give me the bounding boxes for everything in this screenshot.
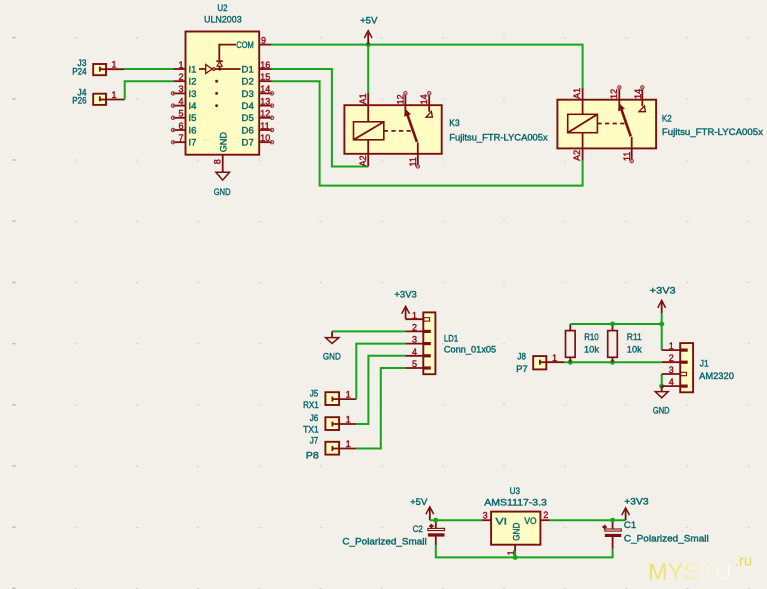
svg-text:U3: U3 xyxy=(510,486,520,497)
svg-text:5: 5 xyxy=(178,109,183,119)
svg-text:K3: K3 xyxy=(449,118,459,129)
svg-text:4: 4 xyxy=(669,377,674,387)
svg-text:Fujitsu_FTR-LYCA005x: Fujitsu_FTR-LYCA005x xyxy=(662,127,763,138)
svg-text:J8: J8 xyxy=(517,351,526,362)
svg-text:14: 14 xyxy=(419,94,429,104)
svg-text:A1: A1 xyxy=(358,93,368,104)
svg-text:U2: U2 xyxy=(217,3,227,14)
power +5V above C2 xyxy=(410,497,434,520)
svg-text:Conn_01x05: Conn_01x05 xyxy=(444,344,496,355)
svg-text:I1: I1 xyxy=(189,64,197,75)
svg-text:+5V: +5V xyxy=(410,497,428,508)
svg-text:GND: GND xyxy=(219,132,230,152)
wire J6 to LD1 pin4 xyxy=(356,356,405,424)
capacitor C2 C_Polarized_Small xyxy=(342,523,444,548)
svg-text:7: 7 xyxy=(178,133,183,143)
svg-text:11: 11 xyxy=(622,152,632,161)
svg-text:5: 5 xyxy=(412,359,417,369)
wire COM rail to K2 A1 xyxy=(272,45,583,88)
ground GND below J1 xyxy=(653,386,670,417)
wire +5V to U3 VI xyxy=(430,519,482,521)
svg-text:13: 13 xyxy=(260,96,270,106)
svg-text:GND: GND xyxy=(653,406,670,417)
wire J3 to U2 I1 xyxy=(124,68,173,70)
svg-text:R11: R11 xyxy=(627,332,642,343)
svg-text:11: 11 xyxy=(408,157,418,166)
svg-text:1: 1 xyxy=(669,341,674,351)
svg-text:C2: C2 xyxy=(413,524,423,535)
svg-text:10: 10 xyxy=(260,133,270,143)
svg-text:4: 4 xyxy=(178,96,183,106)
power +5V top xyxy=(360,16,378,45)
svg-text:Fujitsu_FTR-LYCA005x: Fujitsu_FTR-LYCA005x xyxy=(449,132,548,143)
svg-text:I5: I5 xyxy=(189,113,197,124)
wire C2 to GND rail xyxy=(436,545,613,557)
connector LD1 Conn_01x05 xyxy=(406,310,497,374)
power +3V3 above LD1 xyxy=(394,290,416,320)
svg-text:11: 11 xyxy=(260,121,269,131)
wire J8 to J1 pin2 xyxy=(564,361,661,363)
wire J5 to LD1 pin3 xyxy=(356,344,405,400)
svg-text:1: 1 xyxy=(346,390,351,400)
connector J4 P26 xyxy=(72,88,124,107)
ground GND left of LD1 xyxy=(323,331,341,362)
svg-text:P8: P8 xyxy=(306,450,319,461)
resistor R11 10k xyxy=(608,324,642,362)
svg-text:+3V3: +3V3 xyxy=(624,496,648,507)
svg-text:10k: 10k xyxy=(584,345,599,356)
svg-text:ULN2003: ULN2003 xyxy=(204,15,242,26)
wire J1 pin3 to GND xyxy=(661,374,663,386)
svg-text:D3: D3 xyxy=(242,89,254,100)
junction J8 R10 xyxy=(568,360,573,365)
svg-text:COM: COM xyxy=(236,40,254,51)
svg-text:I7: I7 xyxy=(189,138,197,149)
connector J3 P24 xyxy=(72,58,124,77)
svg-text:8: 8 xyxy=(212,159,222,164)
svg-text:GND: GND xyxy=(323,351,341,362)
power +3V3 right of C1 xyxy=(622,496,649,520)
svg-text:D6: D6 xyxy=(242,125,254,136)
svg-text:J6: J6 xyxy=(310,413,319,424)
svg-text:P7: P7 xyxy=(516,364,528,375)
svg-text:1: 1 xyxy=(178,60,183,70)
svg-text:VO: VO xyxy=(524,516,536,527)
relay K3 Fujitsu_FTR-LYCA005x xyxy=(344,92,547,169)
svg-text:12: 12 xyxy=(260,109,270,119)
svg-text:I4: I4 xyxy=(189,101,198,112)
junction C2 top xyxy=(433,518,438,523)
capacitor C1 C_Polarized_Small xyxy=(602,520,708,549)
svg-text:14: 14 xyxy=(633,89,643,99)
svg-text:A2: A2 xyxy=(358,155,368,166)
svg-text:R10: R10 xyxy=(584,332,599,343)
junction C1 top xyxy=(610,518,615,523)
junction R11 bottom xyxy=(610,360,615,365)
svg-text:2: 2 xyxy=(178,72,183,82)
wire U2 D2 to K2 A2 xyxy=(272,81,583,185)
svg-text:10k: 10k xyxy=(627,345,642,356)
connector J1 AM2320 xyxy=(662,341,734,392)
svg-text:AM2320: AM2320 xyxy=(699,371,734,382)
svg-text:J7: J7 xyxy=(310,436,319,447)
svg-text:GND: GND xyxy=(511,523,522,541)
ground GND below U2 xyxy=(214,172,231,198)
svg-text:15: 15 xyxy=(260,72,270,82)
watermark MYSKU.ru xyxy=(648,554,752,585)
power +3V3 above J1 xyxy=(650,286,676,313)
regulator U3 AMS1117-3.3 xyxy=(482,486,550,556)
wire LD1 pin2 to GND xyxy=(332,330,406,332)
svg-text:3: 3 xyxy=(178,84,183,94)
connector J6 TX1 xyxy=(303,413,356,436)
svg-text:.ru: .ru xyxy=(735,554,752,570)
svg-text:K2: K2 xyxy=(662,114,672,125)
wire R10 R11 top rail xyxy=(570,323,661,325)
svg-text:I6: I6 xyxy=(189,125,197,136)
svg-text:C1: C1 xyxy=(624,520,636,531)
connector J7 P8 xyxy=(306,436,357,462)
svg-text:J5: J5 xyxy=(310,388,319,399)
svg-text:3: 3 xyxy=(412,335,417,345)
svg-text:6: 6 xyxy=(178,121,183,131)
svg-text:C_Polarized_Small: C_Polarized_Small xyxy=(624,534,709,545)
svg-text:D1: D1 xyxy=(242,64,254,75)
svg-text:J1: J1 xyxy=(700,359,709,370)
svg-text:RX1: RX1 xyxy=(303,400,319,411)
svg-text:2: 2 xyxy=(543,510,548,520)
wire U2 D1 to K3 A2 xyxy=(272,69,369,167)
svg-text:1: 1 xyxy=(112,90,117,100)
resistor R10 10k xyxy=(566,324,600,362)
svg-text:D4: D4 xyxy=(242,101,255,112)
svg-text:D2: D2 xyxy=(242,77,254,88)
wire U3 GND to rail xyxy=(514,551,516,557)
svg-text:A1: A1 xyxy=(572,88,582,99)
svg-text:12: 12 xyxy=(395,94,405,104)
wire U3 VO to +3V3 xyxy=(550,519,626,521)
junction +3V3 rail xyxy=(659,322,664,327)
relay K2 Fujitsu_FTR-LYCA005x xyxy=(557,86,763,163)
junction +5V rail xyxy=(366,42,371,47)
svg-text:D5: D5 xyxy=(242,113,254,124)
svg-text:2: 2 xyxy=(412,323,417,333)
connector J5 RX1 xyxy=(303,388,356,411)
svg-text:14: 14 xyxy=(260,84,270,94)
junction U3 GND rail xyxy=(513,555,518,560)
svg-text:12: 12 xyxy=(609,89,619,99)
svg-text:3: 3 xyxy=(483,511,488,521)
svg-text:LD1: LD1 xyxy=(444,333,458,344)
wire +3V3 to J1 pin1 xyxy=(661,313,663,350)
junction R11 top xyxy=(610,322,615,327)
svg-text:AMS1117-3.3: AMS1117-3.3 xyxy=(484,498,547,509)
wire +5V drop to K3 A1 xyxy=(367,45,369,93)
svg-text:9: 9 xyxy=(261,35,266,45)
svg-text:+3V3: +3V3 xyxy=(650,286,676,297)
IC U2 ULN2003 xyxy=(171,3,273,172)
svg-text:+5V: +5V xyxy=(360,16,378,27)
svg-text:1: 1 xyxy=(346,439,351,449)
svg-text:TX1: TX1 xyxy=(303,425,319,436)
svg-text:I2: I2 xyxy=(189,77,197,88)
wire J4 to U2 I2 xyxy=(125,81,174,99)
svg-text:A2: A2 xyxy=(572,150,582,161)
svg-text:I3: I3 xyxy=(189,89,197,100)
svg-text:VI: VI xyxy=(496,516,508,527)
svg-text:1: 1 xyxy=(346,415,351,425)
svg-text:1: 1 xyxy=(552,353,557,363)
svg-text:4: 4 xyxy=(412,347,417,357)
svg-text:MYSKU: MYSKU xyxy=(648,559,732,585)
svg-text:GND: GND xyxy=(214,187,231,198)
junction J1 GND xyxy=(659,384,664,389)
svg-text:+3V3: +3V3 xyxy=(394,290,416,301)
svg-text:1: 1 xyxy=(112,60,117,70)
wire J7 to LD1 pin5 xyxy=(356,368,405,449)
svg-text:2: 2 xyxy=(669,353,674,363)
connector J8 P7 xyxy=(516,351,564,375)
svg-text:D7: D7 xyxy=(242,138,254,149)
svg-text:P24: P24 xyxy=(72,66,87,77)
svg-text:C_Polarized_Small: C_Polarized_Small xyxy=(342,536,426,547)
svg-text:1: 1 xyxy=(412,310,417,320)
svg-text:3: 3 xyxy=(669,365,674,375)
svg-text:16: 16 xyxy=(260,60,270,70)
svg-text:P26: P26 xyxy=(72,96,86,107)
